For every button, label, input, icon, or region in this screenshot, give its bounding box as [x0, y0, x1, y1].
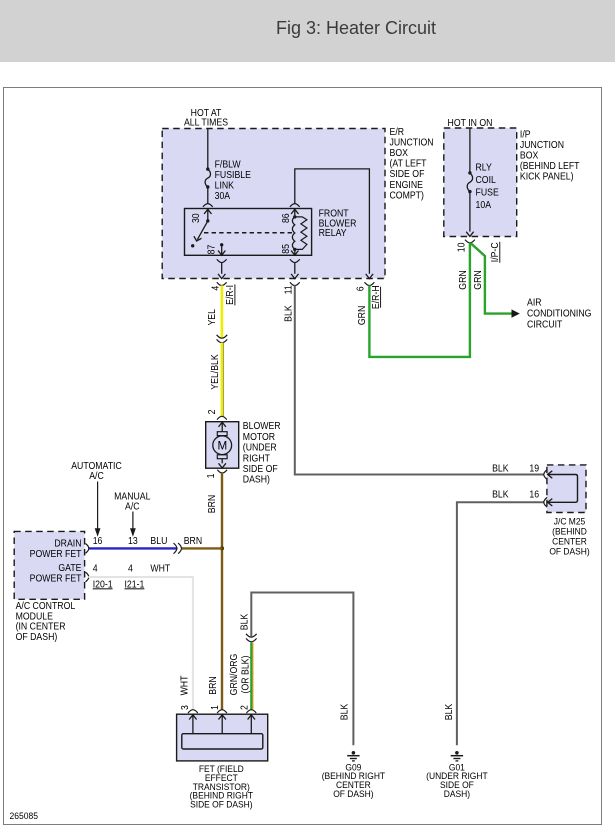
svg-text:13: 13	[128, 535, 138, 546]
svg-text:I/P-C: I/P-C	[490, 242, 501, 262]
svg-text:2: 2	[207, 409, 218, 414]
svg-text:(AT LEFT: (AT LEFT	[390, 158, 427, 169]
svg-text:16: 16	[529, 489, 539, 500]
svg-text:J/C M25: J/C M25	[554, 516, 586, 526]
svg-text:MOTOR: MOTOR	[243, 431, 276, 442]
svg-text:RELAY: RELAY	[319, 228, 347, 239]
svg-text:10A: 10A	[476, 200, 492, 211]
svg-text:BLK: BLK	[443, 703, 454, 720]
svg-text:SIDE OF DASH): SIDE OF DASH)	[190, 799, 252, 809]
svg-text:BLK: BLK	[339, 703, 350, 720]
svg-text:DASH): DASH)	[444, 788, 470, 798]
svg-text:GRN: GRN	[458, 270, 469, 289]
svg-text:POWER FET: POWER FET	[30, 573, 82, 584]
svg-text:COMPT): COMPT)	[390, 190, 424, 201]
svg-text:MANUAL: MANUAL	[114, 491, 150, 502]
svg-text:16: 16	[93, 535, 103, 546]
svg-text:WHT: WHT	[150, 563, 170, 574]
svg-text:COIL: COIL	[476, 175, 496, 186]
svg-text:BOX: BOX	[520, 150, 538, 161]
svg-text:GRN: GRN	[473, 270, 484, 289]
svg-text:DASH): DASH)	[243, 474, 270, 485]
svg-text:30A: 30A	[215, 190, 231, 201]
svg-text:I21-1: I21-1	[125, 579, 145, 590]
svg-text:4: 4	[210, 286, 221, 291]
svg-text:1: 1	[209, 705, 220, 710]
svg-text:BLK: BLK	[492, 489, 509, 500]
svg-text:87: 87	[206, 245, 217, 255]
svg-text:BLK: BLK	[283, 305, 294, 322]
svg-text:30: 30	[190, 213, 201, 223]
svg-text:A/C: A/C	[89, 471, 104, 482]
svg-text:JUNCTION: JUNCTION	[390, 137, 434, 148]
svg-text:E/R-I: E/R-I	[225, 285, 236, 305]
svg-text:HOT IN ON: HOT IN ON	[448, 117, 493, 128]
svg-text:ENGINE: ENGINE	[390, 179, 423, 190]
svg-text:10: 10	[456, 243, 467, 253]
svg-text:FUSE: FUSE	[476, 187, 499, 198]
svg-text:85: 85	[281, 244, 292, 254]
svg-text:OF DASH): OF DASH)	[333, 788, 373, 798]
svg-text:CIRCUIT: CIRCUIT	[527, 319, 563, 330]
svg-text:BOX: BOX	[390, 148, 408, 159]
svg-text:2: 2	[239, 705, 250, 710]
svg-text:OF DASH): OF DASH)	[16, 632, 58, 643]
svg-text:4: 4	[93, 563, 98, 574]
svg-text:RLY: RLY	[476, 162, 492, 173]
svg-text:(BEHIND: (BEHIND	[552, 526, 587, 536]
svg-text:F/BLW: F/BLW	[215, 159, 241, 170]
svg-text:POWER FET: POWER FET	[30, 548, 82, 559]
svg-text:AIR: AIR	[527, 297, 542, 308]
svg-text:ALL TIMES: ALL TIMES	[184, 117, 228, 128]
svg-text:CONDITIONING: CONDITIONING	[527, 308, 591, 319]
svg-text:(IN CENTER: (IN CENTER	[16, 621, 66, 632]
svg-text:86: 86	[281, 213, 292, 223]
svg-text:BLK: BLK	[239, 613, 250, 630]
svg-text:E/R-H: E/R-H	[370, 285, 381, 309]
svg-text:BRN: BRN	[184, 535, 202, 546]
svg-text:BLK: BLK	[492, 463, 509, 474]
svg-text:6: 6	[355, 286, 366, 291]
svg-text:CENTER: CENTER	[552, 536, 587, 546]
svg-text:MODULE: MODULE	[16, 611, 53, 622]
svg-text:DRAIN: DRAIN	[54, 538, 81, 549]
svg-text:LINK: LINK	[215, 180, 235, 191]
svg-text:1: 1	[206, 474, 217, 479]
svg-text:FUSIBLE: FUSIBLE	[215, 169, 251, 180]
svg-text:19: 19	[529, 463, 539, 474]
svg-text:(UNDER: (UNDER	[243, 442, 277, 453]
svg-text:A/C: A/C	[125, 501, 140, 512]
svg-text:A/C CONTROL: A/C CONTROL	[16, 600, 76, 611]
svg-text:RIGHT: RIGHT	[243, 453, 270, 464]
svg-text:11: 11	[283, 285, 294, 294]
svg-text:KICK PANEL): KICK PANEL)	[520, 171, 574, 182]
svg-text:SIDE OF: SIDE OF	[243, 464, 278, 475]
svg-text:(BEHIND LEFT: (BEHIND LEFT	[520, 161, 580, 172]
svg-text:YEL/BLK: YEL/BLK	[209, 354, 220, 390]
svg-text:AUTOMATIC: AUTOMATIC	[71, 461, 122, 472]
svg-text:GRN/ORG: GRN/ORG	[228, 654, 239, 696]
svg-text:BRN: BRN	[206, 495, 217, 513]
svg-text:I/P: I/P	[520, 129, 531, 140]
svg-text:M: M	[218, 438, 228, 452]
svg-text:4: 4	[128, 563, 133, 574]
svg-text:GATE: GATE	[58, 563, 81, 574]
svg-text:BRN: BRN	[208, 676, 219, 694]
svg-text:JUNCTION: JUNCTION	[520, 140, 564, 151]
svg-text:SIDE OF: SIDE OF	[390, 169, 425, 180]
svg-text:GRN: GRN	[357, 306, 368, 325]
svg-text:WHT: WHT	[179, 675, 190, 695]
svg-text:OF DASH): OF DASH)	[549, 546, 589, 556]
svg-text:I20-1: I20-1	[93, 579, 113, 590]
svg-text:BLU: BLU	[150, 535, 167, 546]
svg-text:YEL: YEL	[207, 309, 218, 325]
svg-text:BLOWER: BLOWER	[243, 421, 281, 432]
svg-text:(OR BLK): (OR BLK)	[240, 656, 251, 694]
svg-text:E/R: E/R	[390, 127, 405, 138]
svg-text:265085: 265085	[10, 811, 39, 821]
svg-text:3: 3	[180, 705, 191, 710]
